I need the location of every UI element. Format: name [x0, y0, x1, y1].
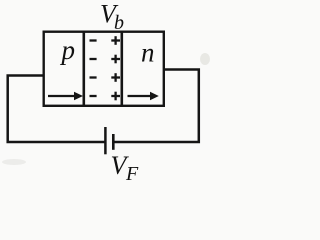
svg-text:n: n [141, 38, 155, 68]
wire from p terminal: left, down, and along bottom to battery [8, 76, 105, 143]
junction divider right (n side of depletion region) [121, 32, 124, 106]
arrow in p region (hole flow) [48, 92, 83, 100]
faint scan smudge lower left [2, 159, 26, 165]
battery short plate (negative) [112, 134, 115, 150]
faint scan smudge right [200, 53, 210, 65]
device box outline (p-n junction body) [44, 32, 164, 106]
svg-text:p: p [60, 35, 76, 65]
junction divider left (p side of depletion region) [83, 32, 86, 106]
battery long plate (positive) [104, 127, 107, 154]
plus signs column [111, 36, 120, 100]
arrow in n region (electron flow) [128, 92, 159, 100]
minus signs column [90, 41, 97, 97]
wire from n terminal: right, down, and along bottom to battery [113, 70, 198, 143]
svg-text:F: F [125, 163, 139, 184]
svg-text:b: b [114, 12, 124, 34]
